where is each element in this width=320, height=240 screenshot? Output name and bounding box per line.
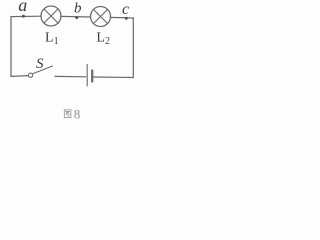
- svg-text:L1: L1: [45, 31, 59, 47]
- svg-text:8: 8: [74, 106, 81, 121]
- svg-text:L2: L2: [96, 30, 110, 47]
- svg-text:a: a: [18, 0, 27, 15]
- svg-text:S: S: [36, 56, 44, 72]
- svg-text:b: b: [74, 0, 82, 16]
- svg-text:c: c: [122, 1, 129, 18]
